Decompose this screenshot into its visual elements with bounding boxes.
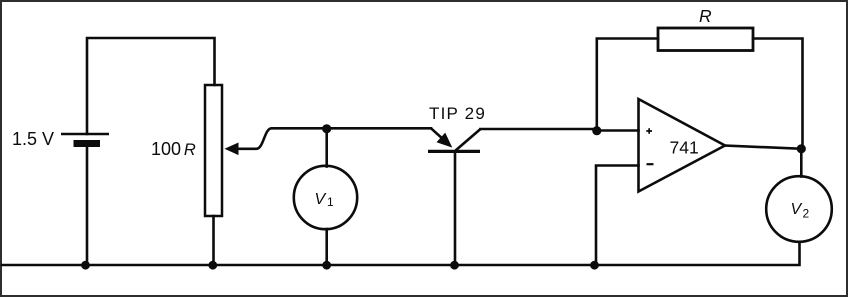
- wire: op-amp output: [725, 146, 801, 149]
- wire: V2 top lead: [800, 149, 803, 177]
- node: op-amp + input: [592, 126, 601, 135]
- svg-text:V: V: [315, 191, 327, 208]
- wire: battery loop top: [87, 38, 215, 134]
- plus sign: [646, 128, 652, 134]
- wire: battery bottom lead: [86, 146, 89, 265]
- node: rail transistor: [450, 261, 459, 270]
- potentiometer 100R body: [205, 85, 222, 216]
- wire: wiper to V1 node: [238, 128, 327, 149]
- svg-text:2: 2: [803, 207, 810, 221]
- svg-text:V: V: [791, 201, 803, 218]
- wire: ground rail: [2, 242, 800, 265]
- minus sign: [647, 163, 654, 165]
- wire: resistor right to output vertical: [753, 39, 803, 149]
- node: output: [797, 144, 806, 153]
- wire: transistor base lead down: [454, 152, 457, 265]
- svg-text:R: R: [699, 6, 712, 26]
- voltmeter V2: [766, 176, 832, 242]
- wire: op-amp plus input stub: [597, 129, 639, 132]
- svg-text:741: 741: [670, 138, 699, 158]
- svg-text:100 R: 100 R: [151, 139, 196, 159]
- transistor Q1 TIP 29: [428, 128, 481, 151]
- svg-text:TIP 29: TIP 29: [429, 104, 486, 123]
- node: wiper/V1: [322, 124, 331, 133]
- emitter arrowhead: [437, 133, 453, 148]
- wiper arrow: [225, 143, 239, 156]
- wire: node to transistor emitter: [327, 127, 431, 130]
- node: rail battery: [81, 261, 90, 270]
- node: rail op-amp minus: [590, 261, 599, 270]
- emitter lead: [431, 128, 444, 140]
- svg-text:1: 1: [327, 195, 334, 209]
- svg-text:1.5 V: 1.5 V: [12, 129, 54, 149]
- feedback resistor R: [658, 28, 753, 51]
- base bar: [428, 150, 480, 153]
- wire: pot bottom lead: [212, 216, 215, 265]
- battery B1 plates: [61, 134, 109, 147]
- op-amp U1 741: [639, 99, 726, 192]
- node: rail pot: [208, 261, 217, 270]
- wire: collector to op-amp input: [481, 128, 598, 131]
- wire: op-amp minus input stub and ground drop: [596, 166, 639, 266]
- node: rail V1: [322, 261, 331, 270]
- wire: V1 bottom lead: [325, 229, 328, 265]
- wire: V1 top lead: [325, 128, 328, 166]
- collector lead: [456, 129, 481, 151]
- wire: feedback left vertical: [597, 39, 658, 131]
- voltmeter V1: [294, 166, 357, 229]
